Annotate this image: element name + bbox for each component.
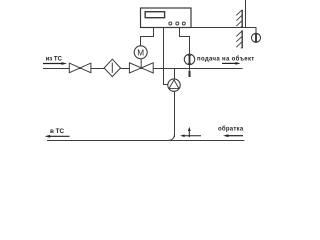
svg-text:подача на объект: подача на объект xyxy=(197,56,255,63)
svg-text:в ТС: в ТС xyxy=(50,128,64,135)
svg-text:обратка: обратка xyxy=(218,126,244,133)
svg-text:M: M xyxy=(137,48,144,57)
svg-text:из ТС: из ТС xyxy=(46,56,63,62)
